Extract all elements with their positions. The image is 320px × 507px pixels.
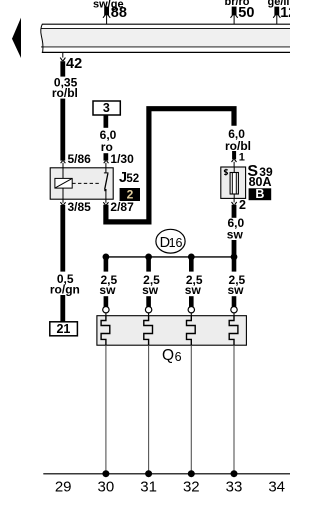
junction node 2 xyxy=(145,254,152,261)
svg-text:sw: sw xyxy=(185,283,202,297)
relay pin 2/87 stub xyxy=(103,199,108,205)
ground node track 32 xyxy=(188,470,195,477)
svg-text:6: 6 xyxy=(175,350,182,364)
label J52 xyxy=(119,170,139,186)
fuse S39 80A xyxy=(221,167,246,198)
wire 0,5 ro/gn (3/85 to terminal 21) xyxy=(50,205,80,322)
svg-text:29: 29 xyxy=(55,479,72,496)
wire 0,35 ro/bl (42 to relay 5/86) xyxy=(52,61,78,167)
svg-text:ro/bl: ro/bl xyxy=(52,86,78,100)
label 80A xyxy=(249,175,272,189)
svg-text:3/85: 3/85 xyxy=(68,200,92,214)
track number 31 xyxy=(140,479,157,496)
svg-text:34: 34 xyxy=(268,479,285,496)
bus bar 30 (positive supply rail) xyxy=(41,24,290,53)
pin 1 label xyxy=(239,152,245,164)
svg-text:32: 32 xyxy=(183,479,200,496)
svg-text:1: 1 xyxy=(239,152,245,164)
ground rail (bottom track line) xyxy=(43,473,290,475)
wire 2,5 sw to glow plug 1 xyxy=(99,257,117,316)
relay position box 2 xyxy=(120,187,140,201)
svg-text:sw: sw xyxy=(227,283,244,297)
svg-text:B: B xyxy=(255,187,264,201)
svg-text:42: 42 xyxy=(66,56,82,72)
wire 6,0 (2/87 up and over to S39) xyxy=(106,109,251,222)
svg-text:2/87: 2/87 xyxy=(110,200,134,214)
glow plug element 2 xyxy=(144,316,153,346)
svg-text:2: 2 xyxy=(239,198,246,212)
relay pin 3/85 stub xyxy=(60,199,65,205)
svg-text:5/86: 5/86 xyxy=(68,152,92,166)
terminal box 21 xyxy=(50,322,78,336)
wire 2,5 sw to glow plug 4 xyxy=(227,257,245,316)
fuse position box B xyxy=(249,187,272,201)
relay J52 (glow plug relay) xyxy=(50,168,113,199)
ground wire from glow plug 1 xyxy=(105,345,107,473)
wire ge/li 12 into bus (clipped at right edge) xyxy=(267,0,296,24)
page-turn arrow (left margin) xyxy=(12,18,21,58)
track number 32 xyxy=(183,479,200,496)
svg-text:50: 50 xyxy=(238,5,254,21)
ground wire from glow plug 3 xyxy=(190,345,192,473)
pin label 5/86 xyxy=(68,152,92,166)
relay coil xyxy=(55,168,72,200)
svg-text:52: 52 xyxy=(126,173,139,185)
svg-text:33: 33 xyxy=(226,479,243,496)
track number 34 xyxy=(268,479,285,496)
track number 29 xyxy=(55,479,72,496)
pin label 3/85 xyxy=(68,200,92,214)
glow plug assembly Q6 box xyxy=(97,316,247,346)
splice designation D16 xyxy=(156,229,185,253)
glow plug element 3 xyxy=(187,316,196,346)
glow plug element 1 xyxy=(101,316,110,346)
wire br/ro 50 into bus xyxy=(224,0,254,24)
svg-text:88: 88 xyxy=(111,5,127,21)
svg-text:31: 31 xyxy=(140,479,157,496)
label Q6 xyxy=(162,347,182,364)
ground node track 31 xyxy=(145,470,152,477)
svg-text:sw: sw xyxy=(99,283,116,297)
ground node track 30 xyxy=(102,470,109,477)
track number 30 xyxy=(98,479,115,496)
relay contact xyxy=(104,168,109,200)
svg-text:1/30: 1/30 xyxy=(110,152,134,166)
svg-text:ro/gn: ro/gn xyxy=(50,282,80,296)
wire sw/ge 88 into bus xyxy=(93,0,127,24)
svg-text:12: 12 xyxy=(280,5,290,21)
glow plug element 4 xyxy=(229,316,238,346)
fuse pin 2 stub xyxy=(232,198,247,212)
svg-text:Q: Q xyxy=(162,347,174,364)
junction node 4 xyxy=(231,254,238,261)
svg-text:sw: sw xyxy=(142,283,159,297)
pin label 1/30 xyxy=(110,152,134,166)
svg-text:16: 16 xyxy=(169,236,183,250)
wire 6,0 sw (S39 to junction) xyxy=(227,205,245,258)
ground wire from glow plug 2 xyxy=(148,345,150,473)
junction node 3 xyxy=(188,254,195,261)
svg-text:sw: sw xyxy=(227,227,244,241)
svg-text:21: 21 xyxy=(56,322,70,336)
terminal box 3 xyxy=(93,101,120,115)
junction node 1 xyxy=(103,254,110,261)
svg-text:30: 30 xyxy=(98,479,115,496)
track number 33 xyxy=(226,479,243,496)
label S39 xyxy=(247,163,273,180)
wire 6,0 ro (box 3 to relay 1/30) xyxy=(100,115,117,168)
svg-text:3: 3 xyxy=(103,101,110,115)
wire 2,5 sw to glow plug 3 xyxy=(185,257,203,316)
junction rail (splice line) xyxy=(106,256,234,258)
wire 2,5 sw to glow plug 2 xyxy=(142,257,160,316)
relay actuation dashed link xyxy=(72,182,101,184)
ground node track 33 xyxy=(231,470,238,477)
connection 42 from bus xyxy=(60,52,82,71)
ground wire from glow plug 4 xyxy=(233,345,235,473)
pin label 2/87 xyxy=(110,200,134,214)
